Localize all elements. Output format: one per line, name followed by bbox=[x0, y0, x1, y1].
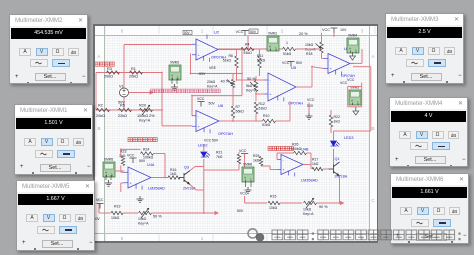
svg-text:XMM4: XMM4 bbox=[348, 34, 357, 38]
svg-text:1kΩ: 1kΩ bbox=[334, 120, 341, 124]
svg-text:VCC: VCC bbox=[347, 78, 355, 82]
svg-text:R12: R12 bbox=[259, 102, 265, 106]
svg-text:OP07AH: OP07AH bbox=[218, 132, 233, 136]
svg-text:20kΩ: 20kΩ bbox=[129, 75, 138, 79]
svg-text:+: + bbox=[244, 176, 246, 180]
svg-text:20kΩ: 20kΩ bbox=[96, 114, 105, 118]
svg-text:R5: R5 bbox=[120, 104, 125, 108]
svg-text:VCC: VCC bbox=[127, 154, 135, 158]
svg-text:+: + bbox=[351, 99, 353, 103]
svg-text:+: + bbox=[349, 47, 351, 51]
svg-text:100kΩ 2%: 100kΩ 2% bbox=[137, 114, 155, 118]
svg-text:+: + bbox=[269, 45, 271, 49]
svg-text:+: + bbox=[270, 92, 273, 97]
svg-text:R10: R10 bbox=[263, 114, 269, 118]
svg-text:10kΩ: 10kΩ bbox=[303, 208, 312, 212]
svg-text:U4B: U4B bbox=[301, 148, 309, 152]
svg-text:51kΩ: 51kΩ bbox=[262, 123, 271, 127]
svg-text:10kΩ: 10kΩ bbox=[111, 216, 120, 220]
svg-text:50V: 50V bbox=[296, 61, 303, 65]
svg-text:R15: R15 bbox=[270, 195, 276, 199]
svg-text:50V: 50V bbox=[237, 209, 244, 213]
svg-text:10kΩ: 10kΩ bbox=[305, 43, 314, 47]
svg-text:VCC: VCC bbox=[204, 139, 212, 143]
svg-text:Key=A: Key=A bbox=[246, 89, 257, 93]
svg-text:-: - bbox=[270, 78, 272, 83]
svg-text:-: - bbox=[283, 157, 285, 162]
svg-text:50V: 50V bbox=[307, 104, 314, 108]
svg-text:+: + bbox=[198, 52, 201, 57]
svg-text:40 %: 40 % bbox=[221, 80, 230, 84]
svg-text:U4A: U4A bbox=[147, 163, 155, 167]
svg-text:51kΩ: 51kΩ bbox=[257, 59, 266, 63]
svg-text:R11: R11 bbox=[257, 54, 263, 58]
svg-text:2: 2 bbox=[281, 236, 284, 241]
svg-text:50V: 50V bbox=[95, 217, 100, 221]
svg-text:0: 0 bbox=[121, 29, 124, 34]
svg-text:VCC: VCC bbox=[307, 98, 315, 102]
svg-text:XMM5: XMM5 bbox=[104, 158, 113, 162]
svg-text:50V: 50V bbox=[212, 139, 219, 143]
svg-text:51kΩ: 51kΩ bbox=[259, 107, 268, 111]
svg-text:U5: U5 bbox=[291, 65, 297, 70]
svg-text:20kΩ: 20kΩ bbox=[104, 75, 113, 79]
svg-text:3: 3 bbox=[361, 29, 364, 34]
svg-text:B: B bbox=[371, 126, 374, 131]
svg-text:10V: 10V bbox=[340, 28, 347, 32]
svg-text:VCC: VCC bbox=[96, 198, 104, 202]
svg-text:R18: R18 bbox=[306, 52, 312, 56]
svg-text:50V: 50V bbox=[139, 159, 146, 163]
svg-text:Q3: Q3 bbox=[184, 166, 189, 170]
svg-text:50V: 50V bbox=[184, 31, 191, 35]
svg-text:2N718A: 2N718A bbox=[335, 175, 348, 179]
svg-text:U2: U2 bbox=[214, 30, 220, 35]
svg-text:10kΩ: 10kΩ bbox=[269, 206, 278, 210]
svg-text:1: 1 bbox=[201, 236, 204, 241]
svg-text:1kΩ: 1kΩ bbox=[312, 162, 319, 166]
svg-text:-50V: -50V bbox=[198, 72, 206, 76]
svg-text:R1: R1 bbox=[131, 67, 136, 71]
svg-text:R25: R25 bbox=[253, 154, 259, 158]
svg-text:LED2: LED2 bbox=[198, 144, 208, 148]
svg-text:LM358AD: LM358AD bbox=[148, 187, 165, 191]
svg-text:XMM1: XMM1 bbox=[268, 32, 277, 36]
svg-text:90 %: 90 % bbox=[319, 205, 328, 209]
svg-text:VCC: VCC bbox=[240, 192, 248, 196]
svg-text:V1: V1 bbox=[119, 85, 124, 89]
svg-text:51kΩ: 51kΩ bbox=[283, 52, 292, 56]
svg-text:+: + bbox=[198, 124, 201, 129]
svg-text:3: 3 bbox=[361, 236, 364, 241]
svg-text:10kΩ: 10kΩ bbox=[138, 217, 147, 221]
svg-text:Q1: Q1 bbox=[335, 157, 340, 161]
svg-text:VEE: VEE bbox=[209, 66, 217, 70]
svg-text:100kΩ: 100kΩ bbox=[143, 156, 154, 160]
svg-text:50V: 50V bbox=[250, 30, 257, 34]
svg-text:-: - bbox=[130, 170, 132, 175]
svg-text:56kΩ: 56kΩ bbox=[236, 110, 245, 114]
svg-text:50 %: 50 % bbox=[153, 215, 162, 219]
svg-text:VCC: VCC bbox=[239, 149, 247, 153]
svg-text:Key=A: Key=A bbox=[138, 222, 149, 226]
svg-text:LM358AD: LM358AD bbox=[301, 179, 318, 183]
svg-text:LED3: LED3 bbox=[344, 136, 354, 140]
svg-text:+: + bbox=[130, 180, 133, 185]
svg-text:0: 0 bbox=[121, 236, 124, 241]
svg-text:-: - bbox=[198, 113, 200, 118]
svg-text:VCC: VCC bbox=[322, 28, 330, 32]
svg-text:20 %: 20 % bbox=[299, 32, 308, 36]
svg-text:U6: U6 bbox=[218, 103, 224, 108]
svg-text:5kΩ: 5kΩ bbox=[246, 84, 253, 88]
svg-text:-: - bbox=[198, 42, 200, 47]
svg-text:VCC: VCC bbox=[340, 81, 348, 85]
svg-text:R24: R24 bbox=[143, 148, 149, 152]
svg-text:22kΩ: 22kΩ bbox=[118, 114, 127, 118]
svg-text:1: 1 bbox=[201, 29, 204, 34]
svg-text:R20: R20 bbox=[139, 104, 146, 108]
svg-text:50 %: 50 % bbox=[247, 77, 256, 81]
svg-text:Key=A: Key=A bbox=[305, 48, 316, 52]
svg-text:1: 1 bbox=[286, 41, 288, 45]
svg-text:+: + bbox=[283, 167, 286, 172]
svg-text:Key=A: Key=A bbox=[207, 85, 218, 89]
svg-text:R26: R26 bbox=[292, 143, 298, 147]
svg-text:R4: R4 bbox=[245, 43, 250, 47]
svg-text:+: + bbox=[330, 66, 333, 71]
svg-text:+: + bbox=[105, 171, 107, 175]
svg-text:R17: R17 bbox=[312, 158, 318, 162]
svg-text:1kΩ: 1kΩ bbox=[253, 159, 260, 163]
svg-text:R3: R3 bbox=[107, 67, 112, 71]
svg-text:B: B bbox=[97, 126, 100, 131]
svg-text:1kΩ: 1kΩ bbox=[170, 172, 177, 176]
svg-text:XMM6: XMM6 bbox=[243, 163, 252, 167]
svg-text:R6: R6 bbox=[229, 54, 234, 58]
svg-text:7kΩ: 7kΩ bbox=[216, 155, 223, 159]
svg-text:51kΩ: 51kΩ bbox=[244, 51, 253, 55]
svg-text:+: + bbox=[171, 74, 173, 78]
svg-text:20kΩ: 20kΩ bbox=[207, 80, 216, 84]
svg-text:Key=A: Key=A bbox=[139, 119, 151, 123]
svg-text:R21: R21 bbox=[216, 151, 222, 155]
svg-text:R7: R7 bbox=[236, 105, 241, 109]
svg-text:-: - bbox=[330, 56, 332, 61]
svg-text:R22: R22 bbox=[334, 115, 340, 119]
svg-text:51kΩ: 51kΩ bbox=[223, 59, 232, 63]
svg-text:C: C bbox=[371, 198, 375, 203]
svg-text:100kΩ: 100kΩ bbox=[291, 147, 302, 151]
svg-text:Key=A: Key=A bbox=[303, 212, 314, 216]
svg-text:R2: R2 bbox=[98, 104, 103, 108]
svg-text:XMM2: XMM2 bbox=[170, 61, 179, 65]
svg-text:A: A bbox=[371, 54, 374, 59]
svg-text:VCC: VCC bbox=[197, 97, 205, 101]
svg-text:A: A bbox=[97, 54, 100, 59]
svg-text:R19: R19 bbox=[114, 205, 120, 209]
svg-text:50V: 50V bbox=[209, 102, 216, 106]
svg-text:2: 2 bbox=[281, 29, 284, 34]
